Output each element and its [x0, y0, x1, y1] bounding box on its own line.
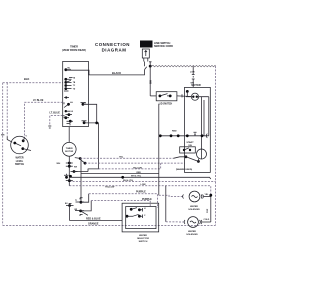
wire lid switch right: [177, 94, 192, 97]
wire from R1 to purple riser: [83, 104, 97, 122]
svg-text:SWITCH: SWITCH: [15, 164, 24, 166]
svg-text:YELLOW: YELLOW: [133, 167, 142, 169]
timer contact 8b: [66, 113, 73, 116]
motor connector: [190, 66, 195, 87]
wire lid switch left: [150, 95, 156, 97]
start sw lower dots: [173, 155, 199, 162]
svg-text:RED: RED: [137, 172, 142, 174]
wire grey mid: [74, 169, 88, 172]
svg-text:TIMER: TIMER: [66, 148, 73, 150]
svg-text:WATER: WATER: [139, 234, 147, 237]
svg-text:BLACK: BLACK: [112, 71, 121, 75]
start switch: [180, 141, 196, 153]
wire timer top feed: [66, 69, 67, 72]
svg-text:RED & BLUE: RED & BLUE: [86, 218, 101, 221]
svg-text:(VIEW FROM REAR): (VIEW FROM REAR): [62, 49, 86, 52]
timer contact 10: [67, 120, 74, 126]
wire BLACK from plug to timer: [67, 62, 147, 76]
svg-text:BLK: BLK: [24, 77, 29, 81]
plug P1: [142, 49, 149, 62]
wire right border (line cord down right side): [215, 66, 217, 225]
svg-text:PURPLE: PURPLE: [136, 191, 146, 194]
svg-text:T1: T1: [75, 200, 77, 202]
switch contact T3 with blade: [75, 209, 88, 216]
water level switch WLS: [1, 134, 28, 166]
wire YELLOW long to valves: [69, 184, 211, 220]
wire red down to hot valve: [158, 136, 160, 196]
svg-text:SERVICE CORD: SERVICE CORD: [154, 45, 173, 48]
contact row A below motor: [57, 162, 73, 165]
svg-text:WH & YEL: WH & YEL: [123, 180, 134, 182]
wire red and blue: [70, 206, 123, 221]
wire dashed to start switch: [80, 157, 173, 159]
contact row E: [66, 165, 78, 169]
timer inner contact R2: [82, 121, 87, 124]
title CONNECTION DIAGRAM: [95, 42, 130, 53]
wire lt blue lower: [48, 112, 62, 128]
svg-text:COLD: COLD: [204, 219, 210, 221]
motor protector P: [186, 90, 209, 100]
timer contact 4: [64, 84, 75, 87]
svg-text:WATER: WATER: [190, 205, 198, 208]
motor box: [185, 87, 211, 172]
wire purple 1: [81, 191, 158, 208]
svg-text:MOTOR: MOTOR: [65, 151, 74, 153]
lid switch S2: [156, 92, 177, 106]
hot valve solenoid: [159, 191, 212, 211]
contact row D pair: [64, 174, 72, 179]
wire lid switch to motor row: [158, 104, 160, 136]
svg-text:LID SWITCH: LID SWITCH: [159, 103, 173, 105]
node N1 junction: [149, 65, 152, 68]
wire white vertical to lid switch: [150, 66, 152, 96]
wire lt blue upper: [25, 99, 63, 138]
wire motor vertical bus: [68, 156, 70, 186]
svg-text:(WHERE USED): (WHERE USED): [176, 169, 193, 171]
timer contact 1L: [64, 68, 71, 72]
wire WLS left feed BLK: [6, 83, 8, 136]
contact yellow tap: [81, 160, 86, 164]
wire bottom border ORANGE: [3, 223, 216, 226]
svg-text:MOTOR: MOTOR: [191, 84, 200, 87]
svg-text:WATER: WATER: [188, 230, 196, 233]
svg-text:WH & YEL: WH & YEL: [131, 176, 142, 178]
svg-text:SOLENOID: SOLENOID: [188, 209, 200, 211]
motor windings verticals: [202, 97, 209, 149]
wire wh-yel dashed: [69, 180, 215, 182]
switch contacts lower T1: [75, 198, 84, 204]
timer contact 8: [65, 110, 74, 113]
timer motor M1: [62, 127, 76, 157]
wire right bus: [75, 157, 82, 202]
timer contact 9: [63, 116, 69, 120]
contact row C: [71, 170, 78, 173]
line switch block SW1: [140, 41, 173, 48]
timer contact 5: [64, 87, 76, 91]
svg-text:LT. BLUE: LT. BLUE: [33, 99, 44, 102]
svg-text:LOW: LOW: [190, 72, 195, 74]
wire white-yellow solid: [71, 176, 211, 179]
water selector switch: [122, 203, 159, 243]
svg-text:YELLOW: YELLOW: [105, 187, 115, 189]
wire purple 2: [81, 198, 153, 211]
timer contact 6: [64, 96, 69, 98]
switch contact T2: [65, 203, 74, 207]
timer contact 7 with blade: [64, 101, 73, 107]
wire red tap: [81, 172, 159, 174]
wire YEL dashed: [85, 162, 185, 164]
svg-text:LEVEL: LEVEL: [16, 161, 24, 163]
svg-text:SELECTOR: SELECTOR: [137, 238, 149, 240]
svg-text:LT. BLUE: LT. BLUE: [50, 112, 61, 115]
wire left border BLK: [3, 77, 63, 225]
timer contact 2: [64, 77, 75, 81]
svg-text:SOLENOID: SOLENOID: [186, 234, 198, 236]
timer contact 3: [64, 80, 75, 84]
svg-text:WATER: WATER: [15, 157, 23, 160]
capacitor circle: [197, 149, 207, 159]
cold valve solenoid: [166, 186, 211, 236]
svg-text:PURPLE: PURPLE: [142, 198, 152, 201]
svg-text:W: W: [63, 116, 65, 118]
svg-text:DIAGRAM: DIAGRAM: [102, 48, 127, 53]
svg-text:PUR: PUR: [207, 208, 209, 213]
timer label: [62, 45, 86, 51]
svg-text:RED: RED: [172, 130, 177, 132]
wire from R2 with junction: [84, 122, 161, 170]
svg-text:WH: WH: [151, 80, 153, 84]
svg-text:ORANGE: ORANGE: [88, 223, 99, 226]
svg-text:WH: WH: [1, 134, 5, 136]
contact row F: [66, 179, 73, 182]
svg-text:START: START: [186, 141, 194, 144]
wire WLS right stub: [23, 138, 31, 151]
svg-text:WH: WH: [57, 163, 61, 165]
wire black line cord (zigzag): [152, 65, 216, 67]
svg-text:CONNECTION: CONNECTION: [95, 42, 130, 47]
svg-text:YEL: YEL: [119, 157, 124, 159]
wire red motor row: [159, 130, 209, 138]
timer inner contact R1: [81, 102, 87, 105]
timer box U1: [63, 61, 89, 126]
svg-text:SWITCH: SWITCH: [139, 241, 148, 243]
